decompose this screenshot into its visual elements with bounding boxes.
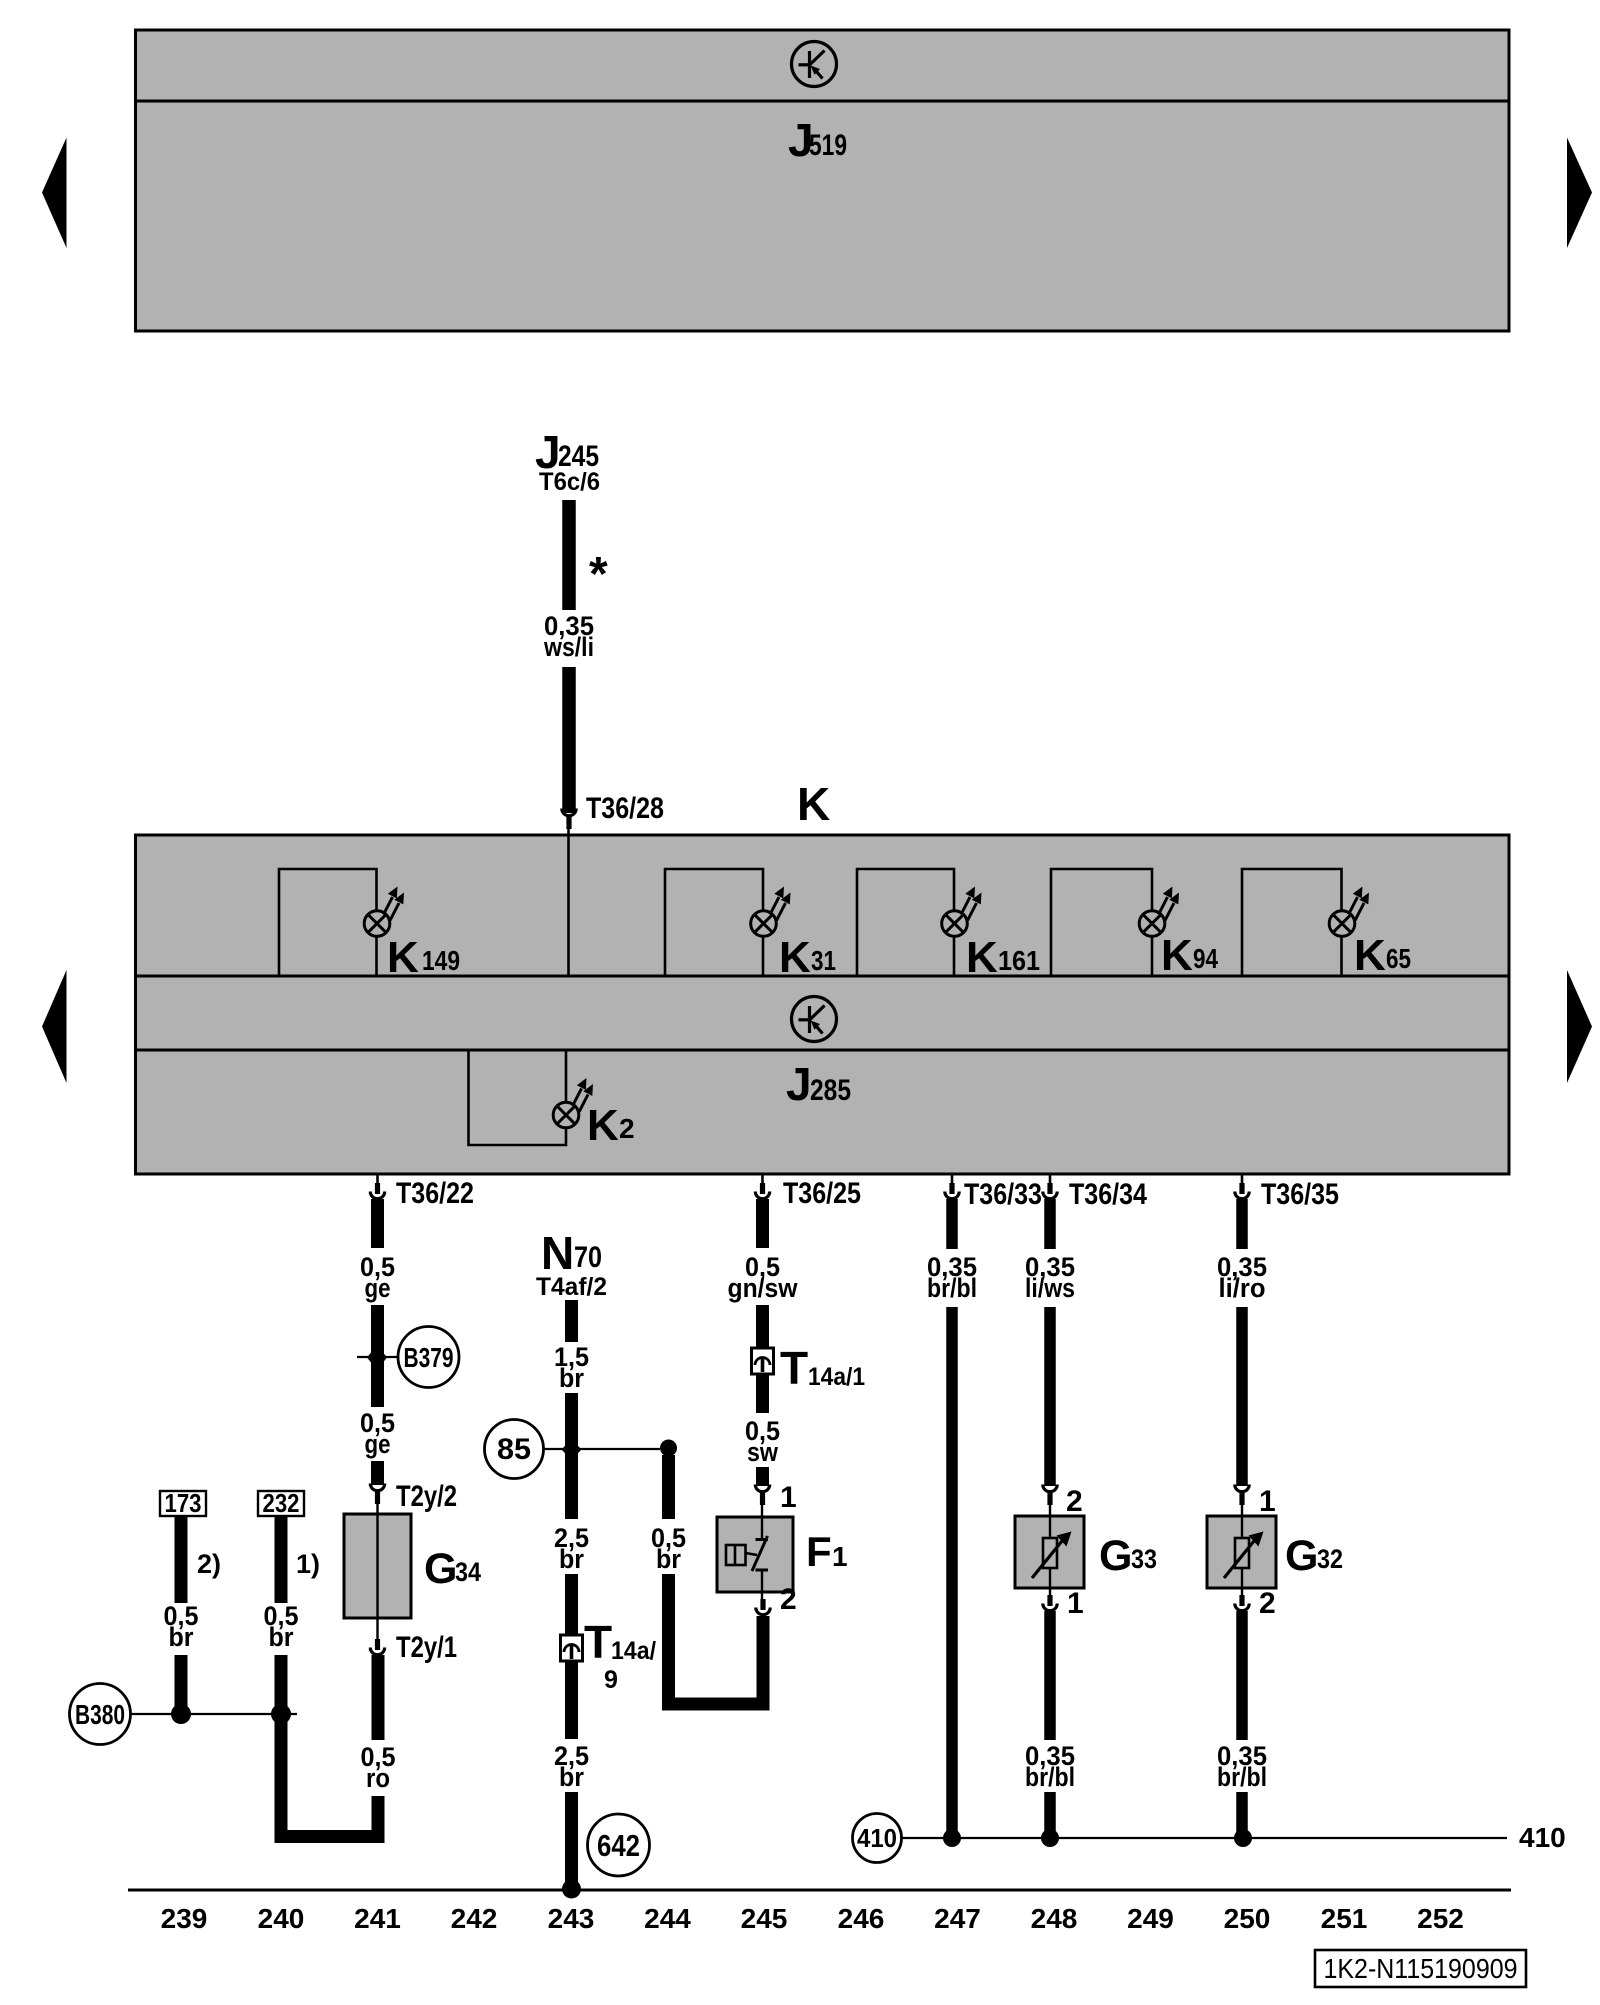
svg-text:F: F <box>806 1528 832 1575</box>
terminal cup T36/34 <box>1043 1183 1057 1199</box>
svg-text:246: 246 <box>838 1903 885 1934</box>
svg-text:1): 1) <box>296 1549 320 1579</box>
junction dot on 173 wire <box>171 1704 191 1724</box>
wire 0,5 sw segment below T14a/1 <box>756 1374 769 1413</box>
svg-text:B379: B379 <box>404 1342 454 1373</box>
svg-text:94: 94 <box>1193 943 1218 974</box>
left continuation arrow (J519 band) <box>42 138 67 249</box>
svg-text:K: K <box>387 933 419 982</box>
junction dot 410/G33 <box>1041 1829 1059 1847</box>
svg-text:14a/: 14a/ <box>611 1637 656 1665</box>
current track circle 410 <box>853 1814 902 1863</box>
svg-text:1K2-N115190909: 1K2-N115190909 <box>1324 1953 1518 1984</box>
pin lead into G32 <box>1241 1504 1243 1516</box>
svg-text:T36/28: T36/28 <box>586 792 664 825</box>
svg-text:J: J <box>786 1058 812 1110</box>
wire 0,5 ge lower segment to G34 <box>371 1461 384 1485</box>
wire 0,35 br/bl from T36/33 (upper) <box>946 1199 958 1249</box>
svg-text:149: 149 <box>422 945 460 976</box>
svg-text:2: 2 <box>780 1583 797 1616</box>
svg-text:K: K <box>587 1101 619 1150</box>
warning lamp K94 loop <box>1051 869 1152 976</box>
terminal cup G33 pin 1 <box>1043 1595 1057 1611</box>
warning lamp K161 loop <box>857 869 954 976</box>
svg-text:K: K <box>779 933 811 982</box>
svg-text:410: 410 <box>1519 1822 1566 1853</box>
wire 0,5 ro upper segment <box>372 1655 385 1740</box>
wire segment through junction 85 <box>565 1393 578 1519</box>
svg-text:242: 242 <box>451 1903 498 1934</box>
wire label 2,5 br (middle) <box>554 1523 589 1574</box>
lamp K2 loop <box>469 1050 567 1145</box>
warning lamp K31 loop <box>665 869 763 976</box>
svg-text:2): 2) <box>197 1549 221 1579</box>
lamp K65 <box>1329 887 1369 937</box>
svg-text:244: 244 <box>644 1903 691 1934</box>
wire 0,35 li/ro from T36/35 (upper) <box>1236 1199 1248 1249</box>
label K31 <box>779 933 836 982</box>
wire 0,5 gn/sw upper segment (T36/25) <box>756 1199 769 1248</box>
wire 0,5 ge (segment through junction B379) <box>371 1305 384 1407</box>
svg-text:65: 65 <box>1386 943 1411 974</box>
connector symbol T14a/1 <box>752 1348 774 1374</box>
junction dot start of 0,5 br branch <box>660 1440 677 1457</box>
terminal cup G32 pin 1 <box>1235 1485 1249 1506</box>
wire label 0,5 ge <box>360 1252 395 1303</box>
fuel gauge sender G32 box <box>1207 1516 1276 1588</box>
svg-text:T2y/1: T2y/1 <box>396 1631 457 1664</box>
svg-text:K: K <box>797 778 830 830</box>
svg-text:br: br <box>559 1363 584 1393</box>
current track circle 642 <box>588 1814 650 1876</box>
wire label 0,35 ws/li <box>543 611 594 662</box>
terminal box 232 <box>258 1488 304 1518</box>
svg-text:239: 239 <box>161 1903 208 1934</box>
ground rail dot at track 243 <box>562 1880 581 1899</box>
wire label 0,35 br/bl (G33) <box>1025 1741 1075 1792</box>
svg-text:br: br <box>269 1622 294 1652</box>
wire label 0,35 li/ws <box>1025 1252 1075 1303</box>
wire label 0,5 ge (second) <box>360 1408 395 1459</box>
label F1 <box>806 1528 848 1575</box>
terminal cup F1 pin 2 <box>756 1599 770 1615</box>
svg-text:sw: sw <box>747 1437 779 1467</box>
pin lead T36/28 inside K band <box>567 835 570 976</box>
brake fluid pressure switch F1 box <box>717 1517 793 1592</box>
pin lead T36/22 <box>376 1174 379 1188</box>
terminal cup F1 pin 1 <box>755 1485 769 1506</box>
svg-text:br: br <box>559 1762 584 1792</box>
svg-text:248: 248 <box>1031 1903 1078 1934</box>
terminal cup T36/33 <box>945 1183 959 1199</box>
svg-text:T36/33: T36/33 <box>964 1178 1042 1211</box>
lamp K31 <box>751 887 791 937</box>
wire label 1,5 br <box>554 1342 589 1393</box>
svg-text:ge: ge <box>365 1429 391 1459</box>
lamp K94 <box>1139 887 1179 937</box>
svg-text:N: N <box>541 1227 574 1279</box>
svg-text:br/bl: br/bl <box>1217 1762 1267 1792</box>
wire 0,35 br/bl long segment to node 410 <box>946 1307 958 1837</box>
svg-text:1: 1 <box>780 1481 797 1514</box>
label G33 <box>1099 1532 1157 1580</box>
svg-text:14a/1: 14a/1 <box>808 1363 865 1391</box>
wire label 2,5 br (lower) <box>554 1741 589 1792</box>
svg-text:T36/35: T36/35 <box>1261 1178 1339 1211</box>
svg-text:2: 2 <box>619 1113 635 1144</box>
label J519 <box>788 114 847 166</box>
lamp K149 <box>364 887 404 937</box>
svg-text:161: 161 <box>998 945 1040 976</box>
instrument cluster K band <box>136 835 1510 1174</box>
pin lead into F1 <box>761 1504 763 1517</box>
control unit J519 (onboard supply control unit, top band) <box>136 30 1510 331</box>
pin lead T36/33 <box>951 1174 954 1188</box>
junction lead line to B379 <box>357 1356 398 1358</box>
svg-text:85: 85 <box>497 1433 531 1466</box>
wire 0,5 br branch down from junction dot <box>662 1455 675 1519</box>
diagram code box 1K2-N115190909 <box>1315 1950 1526 1987</box>
svg-text:K: K <box>966 933 998 982</box>
terminal cup at T36/28 <box>562 809 576 830</box>
svg-text:gn/sw: gn/sw <box>728 1273 799 1303</box>
label K149 <box>387 933 460 982</box>
pin lead out of F1 pin 2 <box>761 1592 763 1604</box>
svg-text:T36/34: T36/34 <box>1069 1178 1147 1211</box>
svg-text:240: 240 <box>258 1903 305 1934</box>
junction dot 410/G32 <box>1234 1829 1252 1847</box>
svg-text:247: 247 <box>934 1903 981 1934</box>
svg-text:173: 173 <box>165 1488 202 1518</box>
svg-text:G: G <box>424 1545 457 1593</box>
svg-text:T4af/2: T4af/2 <box>536 1273 607 1301</box>
node line B380 <box>131 1713 298 1715</box>
wire label 0,35 br/bl <box>927 1252 977 1303</box>
svg-text:243: 243 <box>548 1903 595 1934</box>
wire label 0,5 gn/sw <box>728 1252 799 1303</box>
svg-text:T: T <box>584 1616 612 1668</box>
terminal cup T36/22 <box>370 1183 384 1199</box>
svg-text:249: 249 <box>1127 1903 1174 1934</box>
label T14a/1 <box>780 1342 865 1394</box>
connector symbol T14a/9 <box>561 1635 583 1661</box>
svg-text:li/ws: li/ws <box>1025 1273 1075 1303</box>
solder joint diamond B379 <box>367 1345 387 1370</box>
lamp K161 <box>942 887 982 937</box>
svg-text:br/bl: br/bl <box>1025 1762 1075 1792</box>
wire 0,35 ws/li (lower segment) <box>562 667 576 813</box>
svg-text:31: 31 <box>811 945 836 976</box>
svg-text:br: br <box>169 1622 194 1652</box>
svg-text:1: 1 <box>1067 1587 1084 1620</box>
svg-text:br: br <box>656 1544 681 1574</box>
svg-text:1: 1 <box>832 1541 848 1572</box>
solder joint diamond on N70 wire <box>562 1439 582 1460</box>
wire label 0,5 br (branch) <box>651 1523 686 1574</box>
label G32 <box>1285 1532 1343 1580</box>
svg-text:250: 250 <box>1224 1903 1271 1934</box>
svg-text:*: * <box>589 548 608 601</box>
pin lead into G34 <box>376 1503 378 1514</box>
svg-text:410: 410 <box>857 1823 897 1853</box>
pin lead T36/34 <box>1049 1174 1052 1188</box>
wire segment G33 to node 410 <box>1044 1792 1056 1837</box>
junction dot on 232 wire <box>271 1704 291 1724</box>
pin lead into G33 <box>1049 1504 1051 1516</box>
terminal cup T36/35 <box>1235 1183 1249 1199</box>
svg-text:T2y/2: T2y/2 <box>396 1480 457 1513</box>
wire label 0,5 ro <box>361 1742 396 1793</box>
F1 internal switch symbol <box>726 1517 768 1592</box>
pin lead into K band at T36/28 (above band) <box>567 828 570 836</box>
svg-text:ro: ro <box>366 1763 390 1793</box>
wire 0,5 br from 173 (lower to B380 node) <box>175 1655 188 1714</box>
pin lead out of G33 pin 1 <box>1049 1588 1051 1600</box>
wire 0,5 br from 232 down through B380 node to bend <box>275 1655 288 1843</box>
svg-text:33: 33 <box>1131 1544 1157 1574</box>
svg-text:70: 70 <box>574 1241 602 1274</box>
ground rail <box>128 1889 1511 1892</box>
wire 0,5 br from 232 (upper) <box>275 1516 288 1603</box>
label K2 <box>587 1101 635 1150</box>
terminal cup T2y/2 <box>370 1484 384 1505</box>
right continuation arrow (J519 band) <box>1567 138 1592 249</box>
terminal cup G33 pin 2 <box>1043 1485 1057 1506</box>
wire 0,5 ro lower segment with bend to ground wire <box>275 1796 379 1837</box>
G32 internal sender symbol <box>1224 1516 1264 1588</box>
pin lead T36/25 <box>761 1174 764 1188</box>
wire segment G32 to node 410 <box>1236 1792 1248 1837</box>
terminal box 173 <box>160 1488 206 1518</box>
wire 0,5 br from 173 (upper) <box>175 1516 188 1603</box>
terminal cup G32 pin 2 <box>1235 1595 1249 1611</box>
wire 0,5 sw lower segment to F1 pin 1 <box>756 1467 769 1486</box>
lamp K2 <box>553 1078 593 1128</box>
warning lamp K149 loop <box>279 869 377 976</box>
sender G34 box <box>344 1514 411 1618</box>
svg-text:B380: B380 <box>75 1699 125 1730</box>
wire 0,35 li/ro segment to G32 <box>1236 1307 1248 1486</box>
svg-text:br: br <box>559 1544 584 1574</box>
fuel gauge sender G33 box <box>1015 1516 1084 1588</box>
svg-text:32: 32 <box>1317 1544 1343 1574</box>
svg-text:G: G <box>1285 1532 1318 1580</box>
svg-text:642: 642 <box>597 1828 640 1863</box>
terminal cup T36/25 <box>755 1183 769 1199</box>
wire 0,35 li/ws from T36/34 (upper) <box>1044 1199 1056 1249</box>
svg-text:br/bl: br/bl <box>927 1273 977 1303</box>
svg-text:34: 34 <box>455 1557 481 1587</box>
wire 0,5 br branch U-bend to F1 pin 2 <box>669 1574 764 1704</box>
label N70 with connector T4af/2 <box>536 1227 607 1301</box>
label T14a/9 <box>584 1616 656 1694</box>
junction dot 410/br-bl <box>943 1829 961 1847</box>
svg-text:T6c/6: T6c/6 <box>539 468 600 496</box>
wire label 0,35 br/bl (G32) <box>1217 1741 1267 1792</box>
pin lead T36/35 <box>1241 1174 1244 1188</box>
left continuation arrow (K band) <box>42 970 67 1083</box>
label J285 <box>786 1058 851 1110</box>
G33 internal sender symbol <box>1032 1516 1072 1588</box>
pin lead out of G34 <box>376 1618 378 1646</box>
wire 2,5 br bottom segment to rail <box>565 1792 578 1888</box>
label J245 with connector T6c/6 <box>535 426 600 496</box>
svg-text:251: 251 <box>1321 1903 1368 1934</box>
wire label 0,5 sw <box>745 1416 780 1467</box>
wire 0,5 gn/sw segment to T14a/1 <box>756 1305 769 1348</box>
svg-text:241: 241 <box>354 1903 401 1934</box>
svg-text:li/ro: li/ro <box>1219 1273 1266 1303</box>
wire label 0,5 br (173) <box>164 1601 199 1652</box>
svg-text:285: 285 <box>810 1074 851 1107</box>
wire 0,5 ge upper segment (T36/22 to B379) <box>371 1199 384 1248</box>
right continuation arrow (K band) <box>1567 970 1592 1083</box>
svg-text:T36/22: T36/22 <box>396 1177 474 1210</box>
wire label 0,35 li/ro <box>1217 1252 1267 1303</box>
label K94 <box>1161 931 1218 980</box>
svg-text:9: 9 <box>604 1666 618 1694</box>
wire 0,35 br/bl below G33 <box>1044 1611 1056 1740</box>
svg-text:ws/li: ws/li <box>543 632 594 662</box>
svg-text:519: 519 <box>809 129 847 162</box>
wire 0,35 br/bl below G32 <box>1236 1611 1248 1740</box>
svg-text:G: G <box>1099 1532 1132 1580</box>
svg-text:2: 2 <box>1259 1587 1276 1620</box>
label K65 <box>1354 931 1411 980</box>
self-diagnosis symbol in J519 <box>792 42 837 87</box>
warning lamp K65 loop <box>1242 869 1342 976</box>
wire 0,35 ws/li from J245 T6c/6 (upper segment) <box>562 500 576 610</box>
wire 2,5 br segment below T14a/9 <box>565 1661 578 1739</box>
label K161 <box>966 933 1040 982</box>
wire label 0,5 br (232) <box>264 1601 299 1652</box>
svg-text:T36/25: T36/25 <box>783 1177 861 1210</box>
svg-text:2: 2 <box>1066 1485 1083 1518</box>
label G34 <box>424 1545 481 1593</box>
self-diagnosis symbol in J285 <box>792 997 837 1042</box>
pin lead out of G32 pin 2 <box>1241 1588 1243 1600</box>
node line 85 <box>544 1448 661 1450</box>
wire 0,35 li/ws segment to G33 <box>1044 1307 1056 1486</box>
svg-text:1: 1 <box>1259 1485 1276 1518</box>
terminal cup T2y/1 <box>370 1639 384 1655</box>
wire 1,5 br upper segment from N70 <box>565 1300 578 1342</box>
wire 2,5 br segment to T14a/9 <box>565 1574 578 1636</box>
svg-text:232: 232 <box>263 1488 300 1518</box>
svg-text:K: K <box>1354 931 1386 980</box>
svg-text:ge: ge <box>365 1273 391 1303</box>
connection circle B379 <box>398 1327 459 1388</box>
node line 410 <box>902 1837 1508 1839</box>
svg-text:245: 245 <box>741 1903 788 1934</box>
svg-text:T: T <box>780 1342 808 1394</box>
svg-text:252: 252 <box>1417 1903 1464 1934</box>
node circle 85 <box>485 1420 544 1479</box>
ground connection circle B380 <box>70 1684 131 1745</box>
svg-text:K: K <box>1161 931 1193 980</box>
